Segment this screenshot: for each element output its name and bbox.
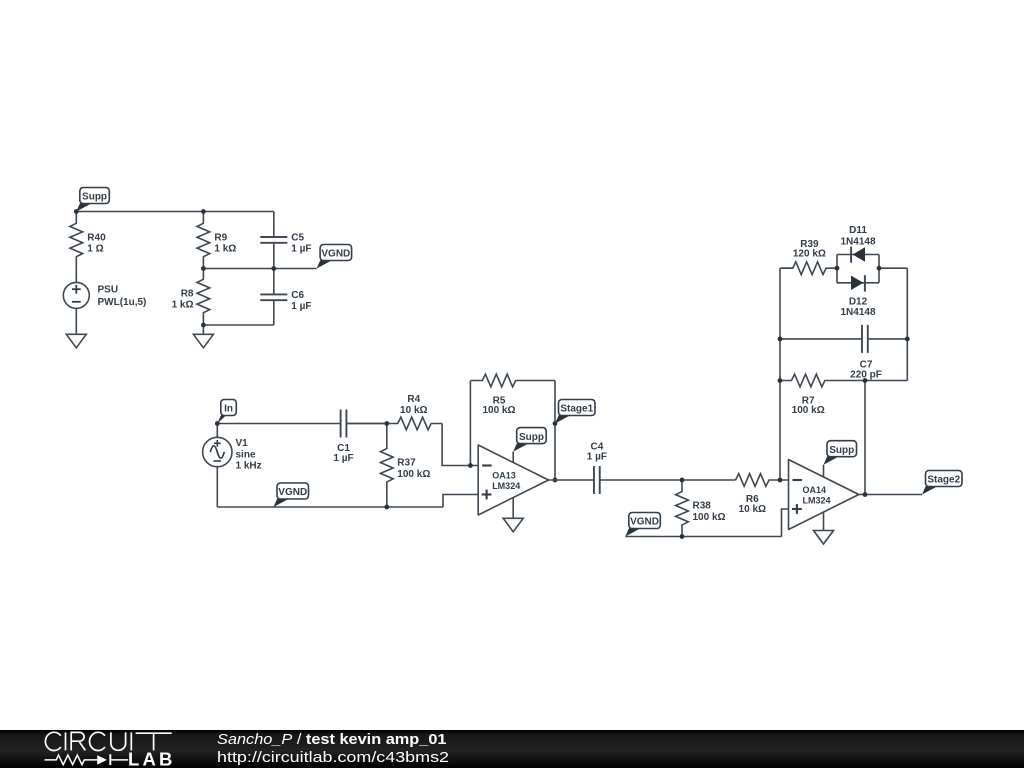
- svg-text:1 kΩ: 1 kΩ: [172, 300, 194, 311]
- svg-text:LM324: LM324: [492, 481, 520, 491]
- svg-text:VGND: VGND: [278, 487, 307, 498]
- svg-text:Sancho_P / test kevin amp_01: Sancho_P / test kevin amp_01: [217, 732, 447, 748]
- svg-text:VGND: VGND: [630, 517, 659, 528]
- svg-text:Stage1: Stage1: [560, 404, 593, 415]
- svg-text:120 kΩ: 120 kΩ: [793, 249, 826, 260]
- svg-text:1N4148: 1N4148: [840, 307, 875, 318]
- svg-text:1 kΩ: 1 kΩ: [214, 244, 236, 255]
- svg-text:100 kΩ: 100 kΩ: [397, 469, 430, 480]
- svg-text:PSU: PSU: [98, 285, 119, 296]
- svg-text:1 µF: 1 µF: [291, 244, 311, 255]
- svg-text:sine: sine: [236, 449, 256, 460]
- svg-text:http://circuitlab.com/c43bms2: http://circuitlab.com/c43bms2: [217, 750, 449, 766]
- svg-text:OA13: OA13: [492, 471, 516, 481]
- svg-text:C6: C6: [291, 290, 304, 301]
- svg-text:Stage2: Stage2: [927, 475, 960, 486]
- svg-text:R37: R37: [397, 458, 416, 469]
- svg-text:1 µF: 1 µF: [587, 451, 607, 462]
- svg-text:10 kΩ: 10 kΩ: [739, 504, 766, 515]
- svg-text:D11: D11: [849, 225, 867, 236]
- svg-text:1N4148: 1N4148: [840, 236, 875, 247]
- svg-text:100 kΩ: 100 kΩ: [792, 405, 825, 416]
- svg-text:1 µF: 1 µF: [291, 301, 311, 312]
- svg-text:Supp: Supp: [519, 432, 544, 443]
- svg-text:10 kΩ: 10 kΩ: [400, 405, 427, 416]
- svg-text:LAB: LAB: [128, 749, 176, 768]
- svg-text:1 Ω: 1 Ω: [87, 244, 103, 255]
- svg-text:Supp: Supp: [829, 445, 854, 456]
- svg-text:100 kΩ: 100 kΩ: [693, 512, 726, 523]
- svg-text:V1: V1: [236, 438, 249, 449]
- svg-text:1 kHz: 1 kHz: [236, 461, 262, 472]
- svg-text:R40: R40: [87, 232, 106, 243]
- svg-text:PWL(1u,5): PWL(1u,5): [98, 297, 147, 308]
- svg-text:In: In: [224, 404, 233, 415]
- svg-text:C5: C5: [291, 232, 304, 243]
- svg-text:100 kΩ: 100 kΩ: [482, 405, 515, 416]
- svg-text:OA14: OA14: [803, 485, 827, 495]
- svg-text:R38: R38: [693, 501, 712, 512]
- svg-text:Supp: Supp: [82, 192, 107, 203]
- svg-text:D12: D12: [849, 296, 868, 307]
- svg-text:LM324: LM324: [803, 495, 831, 505]
- svg-text:R8: R8: [181, 288, 194, 299]
- svg-text:R4: R4: [407, 394, 420, 405]
- svg-text:1 µF: 1 µF: [333, 453, 353, 464]
- svg-text:VGND: VGND: [321, 249, 350, 260]
- svg-text:R9: R9: [214, 232, 227, 243]
